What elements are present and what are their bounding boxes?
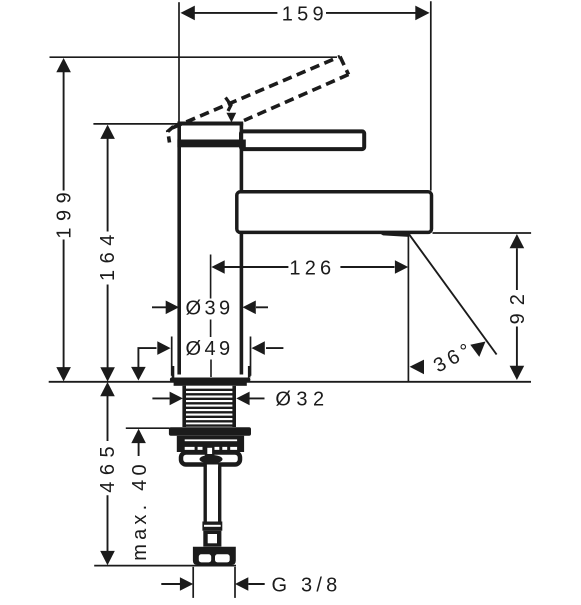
dimension dia39 line	[152, 306, 268, 308]
dimension dia39 arrow right	[243, 301, 256, 315]
dimension dia49 arrow left	[157, 341, 170, 355]
svg-text:159: 159	[282, 3, 328, 25]
handle raised dashed left end	[168, 127, 174, 143]
dimension dia49 extension line left	[171, 337, 173, 376]
dimension 159 line	[195, 12, 416, 14]
handle raised dashed lower edge	[244, 75, 349, 121]
svg-text:36°: 36°	[430, 338, 478, 378]
handle raised dashed right end	[340, 57, 349, 75]
lever handle	[241, 131, 364, 149]
dimension 164 line	[107, 138, 109, 368]
angle stream diagonal	[409, 234, 497, 354]
svg-text:G 3/8: G 3/8	[272, 574, 342, 596]
hose ball	[200, 455, 223, 464]
dimension 159 extension line left	[178, 2, 180, 122]
dimension dia32 line	[152, 397, 264, 399]
svg-text:199: 199	[54, 186, 76, 239]
dimension dia32 arrow right	[236, 392, 249, 406]
nut slit	[185, 439, 237, 441]
nut serration slits	[185, 447, 237, 450]
svg-text:max. 40: max. 40	[129, 460, 151, 561]
dimension 159 arrow right	[415, 6, 429, 21]
dimension 159 extension line right	[430, 1, 432, 190]
max40 lower leader	[138, 443, 140, 456]
dimension 92 arrow up	[510, 234, 525, 248]
svg-text:164: 164	[97, 228, 119, 281]
connector G38	[193, 547, 236, 565]
angle vertical reference line	[407, 234, 409, 382]
svg-text:Ø49: Ø49	[185, 338, 233, 360]
svg-text:92: 92	[507, 286, 529, 324]
angle arrow on vertical	[410, 360, 424, 375]
dimension dia49 extension line right	[250, 337, 252, 376]
dimension 199 arrow up	[56, 58, 71, 72]
faucet cap ring band	[177, 140, 243, 148]
dimension 126 line	[225, 266, 395, 268]
svg-text:Ø39: Ø39	[185, 298, 233, 320]
faucet body right edge	[240, 123, 244, 375]
faucet body left edge	[177, 123, 181, 375]
G38 extension line left	[192, 567, 194, 598]
lever notch	[241, 140, 246, 151]
hose upper piece	[205, 446, 215, 458]
G38 dimension line	[161, 583, 264, 585]
dimension 126 arrow right	[395, 260, 408, 274]
dimension 199 extension line top	[50, 56, 338, 58]
dimension dia49 arrow right	[252, 341, 265, 355]
centerline	[210, 255, 212, 378]
escutcheon flange	[170, 378, 251, 382]
connector slit right	[215, 554, 230, 562]
max40 extension line	[126, 427, 170, 429]
nut flange	[169, 427, 251, 436]
baseline mounting surface	[49, 381, 531, 383]
spout	[237, 192, 432, 233]
hose collar	[202, 522, 222, 531]
dimension 92 extension line top	[433, 232, 532, 234]
max40 lower arrow	[131, 429, 146, 443]
dimension 159 arrow left	[181, 6, 195, 21]
dimension 92 line	[516, 248, 518, 366]
dimension dia32 arrow left	[170, 392, 183, 406]
escutcheon upper sides	[173, 366, 249, 378]
dimension 465 line	[107, 396, 109, 553]
hose collar slit	[204, 525, 221, 527]
dimension 92 arrow down	[510, 366, 525, 380]
dimension 465 arrow up	[100, 382, 115, 396]
faucet cap top edge	[177, 122, 243, 126]
dimension dia39 arrow left	[166, 301, 179, 315]
dimension 164 extension line	[93, 123, 177, 125]
svg-text:465: 465	[97, 440, 119, 493]
handle raised dashed upper edge	[173, 57, 341, 128]
G38 extension line right	[234, 567, 236, 598]
aerator lip	[377, 232, 409, 237]
handle pivot arrow	[226, 113, 236, 123]
svg-text:Ø32: Ø32	[275, 389, 329, 411]
dimension 164 arrow down	[100, 367, 115, 381]
max40 upper arrow	[131, 367, 146, 381]
hose lower segment	[203, 531, 221, 547]
hose upper piece slit	[207, 448, 212, 454]
threaded shank	[184, 386, 236, 427]
escutcheon lower band	[174, 381, 247, 386]
G38 arrow right	[235, 577, 248, 591]
dimension 126 arrow left	[211, 260, 224, 274]
bottom reference line	[94, 565, 236, 567]
nut body	[177, 436, 244, 452]
dimension 164 arrow up	[100, 125, 115, 139]
dimension 199 line	[63, 72, 65, 369]
angle arrow on diagonal	[470, 342, 485, 357]
handle raised dashed notch	[226, 98, 232, 112]
dimension 465 arrow down	[100, 551, 115, 565]
dimension 199 arrow down	[56, 367, 71, 381]
hose tube	[205, 465, 220, 523]
svg-text:126: 126	[289, 257, 335, 279]
hose lower segment window	[208, 534, 217, 543]
hose bracket	[181, 453, 240, 465]
G38 arrow left	[180, 577, 193, 591]
connector slit left	[199, 554, 211, 562]
dimension dia49 line with max40 leader	[138, 348, 283, 367]
